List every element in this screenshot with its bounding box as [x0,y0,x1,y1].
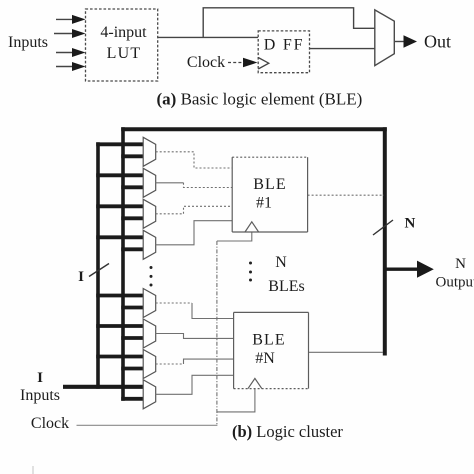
svg-text:N: N [455,256,466,272]
svg-text:LUT: LUT [107,45,142,62]
svg-text:Inputs: Inputs [8,34,48,51]
svg-text:Clock: Clock [187,54,225,71]
svg-text:D FF: D FF [264,37,305,54]
svg-text:#1: #1 [256,195,272,212]
svg-text:BLEs: BLEs [268,278,304,295]
svg-text:I: I [37,370,43,386]
svg-text:Inputs: Inputs [20,387,60,404]
svg-text:BLE: BLE [252,332,286,349]
svg-text:BLE: BLE [253,176,287,193]
svg-text:4-input: 4-input [100,24,147,41]
svg-text:Outputs: Outputs [436,275,474,291]
svg-text:N: N [405,216,416,232]
svg-text:(a) Basic logic element (BLE): (a) Basic logic element (BLE) [157,90,363,109]
svg-text:N: N [275,254,287,271]
svg-text:#N: #N [255,350,275,367]
svg-text:Clock: Clock [31,415,69,432]
svg-text:I: I [78,269,84,285]
svg-text:Out: Out [424,32,451,52]
svg-text:(b) Logic cluster: (b) Logic cluster [232,422,343,441]
